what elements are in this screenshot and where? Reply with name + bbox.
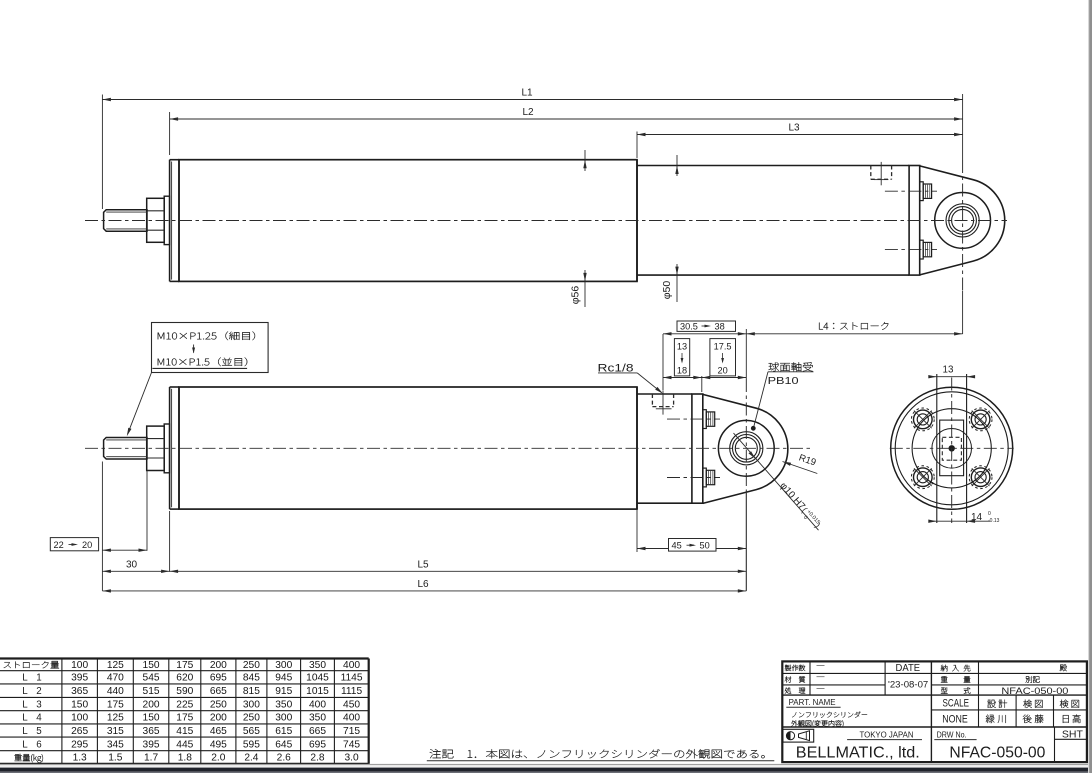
svg-text:125: 125 bbox=[107, 660, 124, 671]
svg-text:915: 915 bbox=[275, 686, 292, 697]
svg-text:665: 665 bbox=[210, 686, 227, 697]
svg-text:L: L bbox=[22, 726, 28, 737]
svg-text:L: L bbox=[22, 713, 28, 724]
svg-text:L: L bbox=[22, 739, 28, 750]
svg-text:L6: L6 bbox=[417, 579, 429, 590]
svg-text:845: 845 bbox=[243, 673, 260, 684]
svg-text:4: 4 bbox=[36, 713, 42, 724]
svg-text:φ56: φ56 bbox=[570, 286, 582, 305]
svg-text:565: 565 bbox=[243, 726, 260, 737]
svg-text:1.7: 1.7 bbox=[144, 753, 158, 764]
svg-text:PB10: PB10 bbox=[768, 375, 799, 387]
svg-text:250: 250 bbox=[210, 699, 227, 710]
svg-text:2.4: 2.4 bbox=[244, 753, 258, 764]
svg-text:200: 200 bbox=[210, 713, 227, 724]
svg-text:20: 20 bbox=[717, 366, 727, 376]
svg-text:400: 400 bbox=[309, 699, 326, 710]
svg-text:NFAC-050-00: NFAC-050-00 bbox=[1001, 686, 1068, 696]
svg-text:150: 150 bbox=[143, 660, 160, 671]
svg-text:665: 665 bbox=[309, 726, 326, 737]
svg-text:L2: L2 bbox=[522, 107, 534, 118]
svg-text:-0.13: -0.13 bbox=[988, 518, 1000, 524]
svg-text:495: 495 bbox=[210, 739, 227, 750]
svg-text:22: 22 bbox=[54, 540, 64, 550]
svg-text:175: 175 bbox=[176, 713, 193, 724]
svg-text:30.5: 30.5 bbox=[680, 321, 698, 331]
svg-text:300: 300 bbox=[275, 713, 292, 724]
svg-text:3.0: 3.0 bbox=[344, 753, 358, 764]
svg-text:125: 125 bbox=[107, 713, 124, 724]
svg-text:DATE: DATE bbox=[896, 663, 921, 674]
svg-text:NONE: NONE bbox=[942, 713, 968, 725]
svg-text:175: 175 bbox=[107, 699, 124, 710]
svg-text:L: L bbox=[22, 699, 28, 710]
svg-text:L5: L5 bbox=[417, 559, 429, 570]
svg-text:30: 30 bbox=[126, 559, 138, 570]
svg-text:17.5: 17.5 bbox=[714, 341, 732, 351]
svg-text:1015: 1015 bbox=[306, 686, 329, 697]
svg-text:—: — bbox=[817, 683, 825, 692]
svg-text:440: 440 bbox=[107, 686, 124, 697]
svg-text:1: 1 bbox=[36, 673, 41, 684]
svg-text:395: 395 bbox=[143, 739, 160, 750]
svg-text:13: 13 bbox=[677, 341, 687, 351]
svg-text:350: 350 bbox=[309, 713, 326, 724]
svg-text:PART. NAME: PART. NAME bbox=[789, 697, 836, 707]
svg-text:2.0: 2.0 bbox=[211, 753, 225, 764]
svg-text:415: 415 bbox=[176, 726, 193, 737]
svg-text:300: 300 bbox=[243, 699, 260, 710]
svg-text:595: 595 bbox=[243, 739, 260, 750]
svg-text:50: 50 bbox=[700, 541, 710, 551]
svg-text:175: 175 bbox=[176, 660, 193, 671]
svg-text:18: 18 bbox=[677, 366, 687, 376]
svg-text:L1: L1 bbox=[521, 88, 533, 99]
svg-text:715: 715 bbox=[343, 726, 360, 737]
svg-text:1.5: 1.5 bbox=[108, 753, 122, 764]
svg-text:14: 14 bbox=[971, 512, 983, 523]
svg-text:545: 545 bbox=[143, 673, 160, 684]
svg-text:L3: L3 bbox=[788, 123, 800, 134]
svg-text:265: 265 bbox=[71, 726, 88, 737]
svg-text:365: 365 bbox=[143, 726, 160, 737]
svg-text:225: 225 bbox=[176, 699, 193, 710]
svg-text:1145: 1145 bbox=[341, 673, 363, 684]
svg-text:3: 3 bbox=[36, 699, 42, 710]
svg-text:450: 450 bbox=[343, 699, 360, 710]
svg-text:1045: 1045 bbox=[306, 673, 329, 684]
svg-text:SCALE: SCALE bbox=[943, 698, 970, 710]
svg-text:φ50: φ50 bbox=[661, 281, 673, 300]
svg-text:350: 350 bbox=[309, 660, 326, 671]
svg-text:620: 620 bbox=[176, 673, 193, 684]
svg-text:295: 295 bbox=[71, 739, 88, 750]
svg-text:2: 2 bbox=[36, 686, 41, 697]
svg-text:20: 20 bbox=[82, 540, 92, 550]
svg-text:SHT: SHT bbox=[1062, 729, 1084, 741]
svg-text:L: L bbox=[22, 686, 28, 697]
svg-text:1115: 1115 bbox=[341, 686, 362, 697]
svg-text:13: 13 bbox=[943, 364, 954, 375]
svg-text:TOKYO JAPAN: TOKYO JAPAN bbox=[860, 730, 914, 739]
svg-text:45: 45 bbox=[672, 541, 682, 551]
svg-text:250: 250 bbox=[243, 660, 260, 671]
svg-text:400: 400 bbox=[343, 660, 360, 671]
svg-text:38: 38 bbox=[715, 321, 725, 331]
svg-text:5: 5 bbox=[36, 726, 42, 737]
svg-text:BELLMATIC., ltd.: BELLMATIC., ltd. bbox=[796, 744, 920, 761]
svg-text:515: 515 bbox=[143, 686, 160, 697]
svg-text:365: 365 bbox=[71, 686, 88, 697]
svg-text:200: 200 bbox=[210, 660, 227, 671]
svg-text:345: 345 bbox=[107, 739, 124, 750]
svg-text:DRW No.: DRW No. bbox=[937, 729, 967, 739]
svg-text:615: 615 bbox=[275, 726, 292, 737]
svg-text:0: 0 bbox=[988, 511, 991, 517]
svg-text:1.8: 1.8 bbox=[178, 753, 192, 764]
svg-text:250: 250 bbox=[243, 713, 260, 724]
svg-text:645: 645 bbox=[275, 739, 292, 750]
svg-text:2.6: 2.6 bbox=[277, 753, 291, 764]
svg-text:1.3: 1.3 bbox=[73, 753, 87, 764]
svg-text:315: 315 bbox=[107, 726, 124, 737]
svg-text:—: — bbox=[817, 661, 825, 670]
svg-text:445: 445 bbox=[176, 739, 193, 750]
svg-text:NFAC-050-00: NFAC-050-00 bbox=[949, 744, 1045, 761]
svg-text:L: L bbox=[22, 673, 28, 684]
svg-text:695: 695 bbox=[309, 739, 326, 750]
svg-text:395: 395 bbox=[71, 673, 88, 684]
svg-text:'23-08-07: '23-08-07 bbox=[888, 680, 928, 691]
svg-text:6: 6 bbox=[36, 739, 42, 750]
svg-text:300: 300 bbox=[275, 660, 292, 671]
svg-text:200: 200 bbox=[143, 699, 160, 710]
svg-text:590: 590 bbox=[176, 686, 193, 697]
svg-text:945: 945 bbox=[275, 673, 292, 684]
svg-text:2.8: 2.8 bbox=[310, 753, 324, 764]
svg-text:150: 150 bbox=[71, 699, 88, 710]
svg-text:695: 695 bbox=[210, 673, 227, 684]
svg-text:465: 465 bbox=[210, 726, 227, 737]
svg-text:150: 150 bbox=[143, 713, 160, 724]
svg-text:100: 100 bbox=[71, 713, 88, 724]
svg-text:815: 815 bbox=[243, 686, 260, 697]
svg-text:745: 745 bbox=[343, 739, 360, 750]
svg-text:470: 470 bbox=[107, 673, 124, 684]
svg-text:—: — bbox=[817, 672, 825, 681]
svg-text:100: 100 bbox=[71, 660, 88, 671]
svg-text:350: 350 bbox=[275, 699, 292, 710]
svg-text:400: 400 bbox=[343, 713, 360, 724]
